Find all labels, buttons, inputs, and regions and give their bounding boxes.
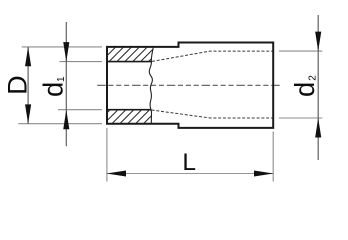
extension line D bottom	[18, 123, 102, 125]
dimension line L	[107, 173, 273, 175]
svg-text:d: d	[38, 82, 69, 97]
extension line d1 bottom	[58, 109, 102, 111]
extension line d2 top	[279, 50, 322, 52]
arrow L left	[107, 170, 127, 176]
bore line bottom (d1)	[107, 109, 151, 111]
part outline	[107, 43, 273, 128]
svg-text:2: 2	[308, 75, 319, 81]
extension line L right	[272, 132, 274, 182]
dimension line d2	[317, 15, 319, 160]
extension line D top	[22, 46, 102, 48]
extension line d2 bottom	[279, 117, 322, 119]
arrow L right	[254, 170, 274, 176]
arrow D top	[25, 47, 31, 66]
hidden bore taper top (dashed)	[152, 51, 273, 61]
svg-text:1: 1	[56, 76, 67, 82]
extension line d1 top	[60, 61, 103, 63]
svg-text:L: L	[182, 149, 196, 176]
arrow d1 bottom	[63, 110, 69, 130]
arrow d1 top	[63, 42, 69, 62]
arrow D bottom	[25, 104, 31, 123]
break line (wavy)	[149, 47, 153, 124]
svg-text:d: d	[289, 82, 320, 97]
extension line L left	[106, 128, 108, 182]
hatch top wall	[92, 45, 173, 63]
svg-text:D: D	[2, 75, 32, 95]
dimension line D	[27, 47, 29, 124]
centerline	[97, 84, 280, 86]
arrow d2 bottom	[315, 118, 321, 138]
bore line top (d1)	[107, 61, 152, 63]
hidden bore taper bottom (dashed)	[152, 110, 274, 118]
arrow d2 top	[315, 32, 321, 51]
dimension line d1	[65, 22, 67, 146]
hatch bottom wall	[94, 108, 175, 126]
